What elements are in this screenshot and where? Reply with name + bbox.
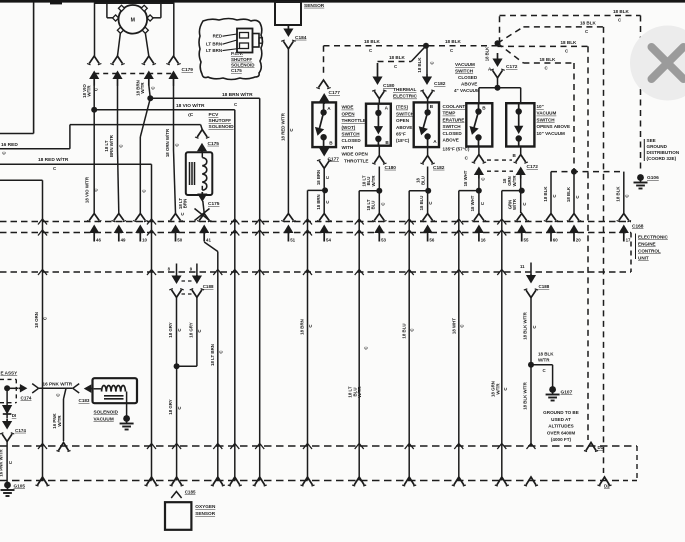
wire 18 GRN W/TR: [520, 179, 522, 214]
svg-text:SOLENOID: SOLENOID: [231, 62, 255, 67]
svg-text:18 BLK: 18 BLK: [364, 39, 381, 44]
close button: [630, 26, 685, 101]
svg-text:USED AT: USED AT: [551, 417, 571, 422]
svg-text:(TES): (TES): [396, 105, 408, 110]
ground G107: [549, 386, 556, 393]
svg-text:18 BLK: 18 BLK: [485, 47, 490, 61]
inset: PCV shutoff solenoid connector detail: [199, 19, 263, 80]
connector C184: [287, 25, 289, 33]
wire 18 BLK dashed tie line: [551, 171, 624, 173]
svg-text:18 BLK W/TR: 18 BLK W/TR: [523, 381, 528, 409]
svg-text:ABOVE: ABOVE: [443, 138, 459, 143]
svg-text:18 BLK: 18 BLK: [613, 9, 630, 14]
wire 18 VIO W/TR drop to bottom: [234, 110, 236, 481]
wire 18 LT BLU W/TR branch to bottom: [359, 190, 379, 192]
svg-text:COOLANT: COOLANT: [443, 104, 466, 109]
svg-text:18 RED W/TR: 18 RED W/TR: [280, 112, 285, 141]
vacuum solenoid box: [93, 378, 138, 403]
wire 16 RED from left edge: [0, 148, 70, 150]
svg-text:C: C: [480, 177, 485, 180]
svg-text:18 BLU: 18 BLU: [419, 196, 424, 211]
svg-text:ELECTRONIC: ELECTRONIC: [638, 235, 669, 240]
svg-text:C: C: [522, 202, 527, 205]
wire 18 RED W/TR from left edge: [0, 163, 152, 165]
connector C168 row: [0, 221, 631, 223]
C168 pin 10: [135, 214, 145, 221]
ground G106: [637, 174, 644, 181]
svg-text:E ASSY: E ASSY: [1, 370, 18, 375]
branch to G107: [531, 364, 553, 366]
svg-text:ALTITUDES: ALTITUDES: [548, 424, 573, 429]
connector C179 (motor disconnect): [89, 56, 99, 64]
svg-text:SWITCH: SWITCH: [443, 124, 462, 129]
svg-text:ENGINE: ENGINE: [638, 242, 656, 247]
text electronic engine control unit: [635, 234, 637, 260]
svg-text:C: C: [56, 393, 61, 396]
wire 18 BLK dashed to TES switch: [378, 61, 412, 63]
svg-text:BLU: BLU: [420, 176, 425, 185]
dashed link D1-D2: [614, 480, 637, 482]
connector C175 lower: [201, 192, 203, 198]
motor M (vacuum motor): [119, 5, 148, 34]
svg-text:C174: C174: [15, 428, 26, 433]
svg-text:16: 16: [481, 238, 486, 243]
svg-text:OVER 6400M: OVER 6400M: [547, 430, 576, 435]
svg-text:SWITCH: SWITCH: [396, 111, 415, 116]
wire 18 VIO W/TR: [93, 85, 95, 213]
svg-text:SWITCH: SWITCH: [455, 69, 474, 74]
svg-text:G106: G106: [647, 175, 659, 181]
svg-text:THERMAL: THERMAL: [393, 87, 417, 93]
splice on BRN wire: [147, 95, 153, 101]
svg-text:10": 10": [537, 104, 544, 109]
svg-text:W/TR: W/TR: [140, 82, 145, 94]
svg-text:18 BLK: 18 BLK: [566, 186, 571, 202]
junction 18 BLK fan: [495, 40, 501, 46]
svg-text:18 GRY: 18 GRY: [188, 322, 193, 338]
svg-text:DI: DI: [12, 413, 16, 418]
svg-text:RED: RED: [213, 34, 223, 39]
svg-text:SWITCH: SWITCH: [537, 117, 556, 122]
svg-text:VACUUM: VACUUM: [94, 417, 114, 422]
svg-text:C188: C188: [539, 284, 550, 289]
svg-text:DISTRIBUTION: DISTRIBUTION: [647, 150, 680, 155]
diode D1: [6, 388, 8, 405]
svg-text:C177: C177: [329, 90, 341, 96]
svg-text:60: 60: [553, 238, 558, 243]
wire 18 BLK to pin 20: [573, 172, 575, 213]
svg-text:C182: C182: [433, 165, 445, 171]
svg-text:18 BRN: 18 BRN: [300, 319, 305, 335]
D1 termination: [586, 443, 596, 451]
wire 18 BLU branch to bottom: [409, 190, 428, 192]
wire 16 PNK W/TR to ground: [6, 442, 8, 484]
svg-text:WIDE: WIDE: [342, 105, 354, 110]
svg-text:CLOSED: CLOSED: [342, 138, 362, 143]
svg-text:C: C: [8, 461, 13, 464]
svg-text:LT BRN: LT BRN: [206, 48, 222, 53]
wire 18 ORN W/TR: [173, 85, 175, 150]
svg-text:C: C: [480, 202, 485, 205]
wire 18 RED W/TR drop to bottom: [151, 164, 153, 480]
svg-text:C182: C182: [434, 81, 446, 87]
svg-text:OXYGEN: OXYGEN: [195, 504, 216, 509]
svg-text:C180: C180: [385, 165, 397, 171]
svg-text:C172: C172: [506, 64, 518, 70]
C188 sockets: [172, 290, 182, 298]
row2 terminations: [38, 477, 48, 485]
svg-text:CLOSED: CLOSED: [458, 75, 478, 80]
svg-text:GROUND TO BE: GROUND TO BE: [543, 410, 579, 415]
motor lead wires: [94, 3, 96, 56]
svg-text:C188: C188: [203, 284, 214, 289]
switch WOT (wide open throttle): [312, 102, 336, 147]
svg-text:SENSOR: SENSOR: [195, 511, 215, 516]
svg-text:(18°C): (18°C): [396, 138, 410, 143]
wire 18 ORN from left edge: [0, 179, 43, 181]
connector C174 (horizontal): [7, 387, 18, 389]
connector C172 top (4in vacuum switch feed): [497, 53, 499, 63]
svg-text:18 WHT: 18 WHT: [470, 195, 475, 211]
svg-text:P.C.V.: P.C.V.: [231, 51, 243, 56]
connector C182 upper (coolant switch feed): [426, 74, 428, 81]
connector C174 lower: [6, 419, 8, 426]
junction in engine assy: [4, 385, 10, 391]
wire 18 LT BRN jog below pin 41: [204, 242, 218, 252]
svg-text:VACUUM: VACUUM: [455, 62, 475, 67]
svg-text:C172: C172: [527, 164, 539, 170]
C168 pin 46: [89, 214, 99, 221]
connector C183 pair: [73, 384, 79, 393]
svg-text:55: 55: [524, 238, 529, 243]
svg-text:CLOSED: CLOSED: [443, 131, 463, 136]
C168 pin 49: [114, 214, 124, 221]
wire 18 BLK dashed branch B (to D2): [498, 27, 524, 43]
svg-text:ABOVE: ABOVE: [396, 125, 412, 130]
svg-text:C183: C183: [79, 398, 90, 403]
svg-text:18 RED W/TR: 18 RED W/TR: [38, 157, 69, 163]
wire 18 BRN W/TR drop to bottom: [259, 98, 261, 480]
svg-text:49: 49: [121, 238, 126, 243]
svg-text:SOLENOID: SOLENOID: [209, 124, 235, 130]
svg-text:11: 11: [520, 264, 525, 269]
svg-text:18 BLK: 18 BLK: [417, 57, 422, 73]
svg-text:B: B: [482, 106, 486, 111]
wire 18 LT BLU W/TR: [378, 147, 380, 156]
C168 pin 54: [319, 214, 329, 221]
svg-text:LT BRN: LT BRN: [206, 42, 222, 47]
svg-text:18 BRN: 18 BRN: [316, 194, 321, 209]
svg-text:18 BRN W/TR: 18 BRN W/TR: [222, 92, 253, 98]
svg-text:C: C: [430, 61, 435, 64]
svg-text:18 WHT: 18 WHT: [452, 318, 457, 334]
svg-text:18 BLK: 18 BLK: [580, 20, 597, 25]
wire 18 GRN W/TR branch to bottom: [502, 190, 522, 192]
switch 10in vacuum: [506, 103, 534, 146]
svg-text:WIDE OPEN: WIDE OPEN: [342, 152, 369, 157]
connector C177 upper (from 18 BLK): [319, 80, 329, 88]
svg-text:4" VACUUM: 4" VACUUM: [454, 88, 480, 93]
sensor box: [275, 2, 301, 25]
wire 18 BLU: [427, 147, 429, 156]
wire 18 GRY right: [196, 297, 198, 366]
connector C180 lower: [374, 156, 384, 164]
svg-text:SHUTOFF: SHUTOFF: [231, 57, 252, 62]
svg-text:18 VIO W/TR: 18 VIO W/TR: [85, 176, 90, 203]
svg-text:18 BLK: 18 BLK: [543, 186, 548, 202]
connector C182 lower: [423, 156, 433, 164]
C168 pin 51: [283, 214, 293, 221]
svg-text:C185: C185: [185, 489, 196, 494]
svg-text:OPENS ABOVE: OPENS ABOVE: [537, 124, 571, 129]
svg-text:ERATURE: ERATURE: [443, 117, 465, 122]
svg-text:18 ORN: 18 ORN: [34, 312, 39, 328]
svg-text:W/TR: W/TR: [357, 386, 362, 398]
wire 18 BRN W/TR horizontal run: [150, 97, 259, 99]
svg-text:BLU: BLU: [371, 201, 376, 210]
svg-text:C179: C179: [182, 67, 194, 73]
splice on tie line: [571, 169, 577, 175]
svg-text:CONTROL: CONTROL: [638, 249, 661, 254]
svg-text:SOLENOID: SOLENOID: [94, 410, 119, 415]
oxygen sensor box: [165, 502, 191, 530]
svg-text:SWITCH: SWITCH: [342, 132, 361, 137]
svg-text:OPEN: OPEN: [342, 111, 356, 116]
connector C172 lower pair: [478, 147, 480, 155]
svg-text:53: 53: [381, 238, 386, 243]
engine assembly dashed outline: [0, 378, 16, 380]
wire 18 LT BRN to pin 41: [203, 201, 204, 213]
wire 18 RED W/TR from sensor: [287, 49, 289, 213]
svg-text:W/TR: W/TR: [57, 415, 62, 427]
svg-text:(COORD 32E): (COORD 32E): [647, 156, 677, 161]
C168 pin 53: [374, 214, 384, 221]
svg-text:18 BLK W/TR: 18 BLK W/TR: [523, 311, 528, 339]
splice on VIO wire: [91, 107, 97, 113]
svg-text:18 VIO W/TR: 18 VIO W/TR: [176, 103, 205, 109]
svg-text:18 BLK: 18 BLK: [389, 55, 406, 60]
svg-text:BRN W/TR: BRN W/TR: [109, 134, 114, 157]
row1 crossing ticks: [38, 443, 47, 449]
connector C175 upper: [201, 125, 203, 130]
svg-text:THROTTLE: THROTTLE: [342, 118, 367, 123]
svg-text:20: 20: [576, 238, 581, 243]
svg-text:W/TR: W/TR: [538, 358, 550, 363]
connector C180 upper (TES feed): [377, 63, 379, 81]
wire 18 GRY to oxygen sensor: [176, 366, 178, 480]
wire 18 BLK to pin 17: [623, 172, 625, 213]
svg-text:UNIT: UNIT: [638, 256, 649, 261]
svg-text:18 BLK: 18 BLK: [540, 57, 557, 62]
svg-text:10: 10: [142, 238, 147, 243]
wire 18 BLK dashed branch C (to D1): [498, 45, 589, 47]
svg-text:18 BLK: 18 BLK: [538, 352, 554, 357]
svg-text:ABOVE: ABOVE: [461, 82, 477, 87]
svg-text:C: C: [325, 200, 330, 203]
wire 18 VIO W/TR horizontal run: [94, 109, 235, 111]
connector C177 lower: [323, 147, 325, 153]
svg-text:18 GRY: 18 GRY: [168, 399, 173, 415]
C168 pin 16: [474, 214, 484, 221]
svg-text:W/TR: W/TR: [512, 198, 517, 210]
wire 18 BRN: [323, 168, 325, 213]
wire to solenoid ground: [126, 392, 128, 418]
wire 16 PNK W/TR horizontal: [39, 387, 73, 389]
wire from top edge down left side: [33, 2, 35, 134]
splice on BLK W/TR: [528, 362, 534, 368]
solenoid coil: [102, 386, 126, 392]
svg-text:18 GRY: 18 GRY: [168, 322, 173, 338]
svg-text:OPEN: OPEN: [396, 118, 410, 123]
svg-text:(WOT): (WOT): [342, 125, 356, 130]
C168 pin 20: [569, 214, 579, 221]
splice X on LT BRN wire: [195, 209, 210, 221]
wire 18 LT BRN W/TR: [117, 85, 119, 150]
svg-text:18 BLU: 18 BLU: [401, 323, 406, 338]
svg-text:(4000 FT): (4000 FT): [551, 437, 572, 442]
bottom connector row 1: [0, 445, 637, 447]
svg-text:C: C: [325, 176, 330, 179]
svg-text:16 PNK W/TR: 16 PNK W/TR: [43, 381, 73, 386]
svg-text:18 BLK: 18 BLK: [615, 186, 620, 202]
svg-text:SEE: SEE: [647, 138, 656, 143]
C168 pin 55: [517, 214, 527, 221]
wire to pin 10: [140, 98, 150, 137]
wire 18 BRN branch to bottom: [308, 189, 326, 191]
wire 16 PNK W/TR drop: [64, 388, 67, 399]
svg-text:10" VACUUM: 10" VACUUM: [537, 131, 566, 136]
GRY wires join: [177, 365, 197, 367]
svg-text:18 BLK: 18 BLK: [561, 40, 578, 45]
wire 18 BLK W/TR: [530, 298, 532, 446]
svg-text:51: 51: [290, 238, 295, 243]
svg-text:18 LT BRN: 18 LT BRN: [210, 344, 215, 366]
svg-text:ELECTRIC: ELECTRIC: [393, 94, 418, 100]
svg-text:65°F: 65°F: [396, 132, 406, 137]
svg-text:G105: G105: [14, 484, 26, 489]
svg-text:50: 50: [177, 238, 182, 243]
switch 4in vacuum: [466, 103, 492, 146]
wire to vacuum switches: [497, 78, 499, 88]
row2 crossing ticks: [38, 269, 47, 275]
wire 18 BRN W/TR: [149, 85, 151, 98]
text see ground distribution: [643, 139, 645, 161]
wire 18 GRY left: [176, 297, 178, 366]
svg-text:W/TR: W/TR: [371, 175, 376, 187]
wire 18 ORN drop to bottom: [42, 180, 44, 480]
svg-text:WITH: WITH: [342, 145, 354, 150]
svg-text:18 BLK: 18 BLK: [445, 39, 462, 44]
switch TES (thermal electric): [366, 104, 391, 146]
wire 18 BLK dashed branch D (to EECU grounds): [498, 43, 524, 63]
svg-text:PCV: PCV: [209, 112, 220, 118]
svg-text:SENSOR: SENSOR: [304, 3, 325, 9]
bottom connector row 2: [0, 480, 614, 482]
svg-text:C175: C175: [208, 201, 220, 207]
svg-text:D2: D2: [604, 484, 610, 489]
svg-text:GROUND: GROUND: [647, 144, 668, 149]
D2 termination: [600, 477, 610, 485]
svg-text:56: 56: [429, 238, 434, 243]
svg-text:C175: C175: [231, 68, 242, 73]
svg-text:18 BRN: 18 BRN: [316, 170, 321, 185]
C168 pin 60: [546, 214, 556, 221]
wire 18 BLK to pin 60: [550, 172, 552, 213]
svg-text:46: 46: [96, 238, 101, 243]
svg-text:C: C: [428, 201, 433, 204]
wire 18 BLK dashed branch A (to G106): [499, 16, 501, 44]
svg-text:C168: C168: [632, 224, 644, 230]
C168 pin 17: [619, 214, 629, 221]
top scan-cut black bar: [0, 0, 685, 3]
svg-text:C174: C174: [21, 395, 32, 400]
svg-text:54: 54: [326, 238, 331, 243]
svg-text:VACUUM: VACUUM: [537, 111, 557, 116]
svg-text:B: B: [430, 104, 434, 109]
svg-text:16 PNK W/TR: 16 PNK W/TR: [0, 448, 4, 476]
svg-text:C184: C184: [295, 35, 307, 41]
junction on 18 BLK: [423, 43, 429, 49]
C168 pin 41: [199, 214, 209, 221]
wire 18 WHT: [478, 179, 480, 214]
solenoid coil (PCV shutoff): [186, 152, 213, 195]
svg-text:W/TR: W/TR: [87, 85, 92, 97]
svg-text:18 WHT: 18 WHT: [463, 170, 468, 186]
svg-text:BRN: BRN: [183, 199, 188, 209]
svg-text:41: 41: [206, 238, 211, 243]
svg-text:THROTTLE: THROTTLE: [344, 158, 369, 163]
C168 pin 50: [171, 214, 181, 221]
svg-text:18 ORN W/TR: 18 ORN W/TR: [165, 128, 170, 157]
wire 18 WHT branch to bottom: [459, 190, 479, 192]
svg-text:M: M: [131, 18, 135, 24]
svg-text:17: 17: [626, 238, 631, 243]
wire 18 BLK to coolant switch: [426, 46, 428, 74]
svg-text:G107: G107: [561, 390, 573, 396]
svg-text:D1: D1: [598, 445, 604, 450]
ground for vacuum solenoid: [123, 415, 130, 422]
wire 18 BLK dashed feed to WOT switch: [324, 45, 498, 47]
svg-text:W/TR: W/TR: [495, 383, 500, 395]
svg-text:TEMP: TEMP: [443, 111, 456, 116]
ground G105: [4, 482, 11, 489]
svg-text:16 RED: 16 RED: [1, 142, 18, 148]
svg-text:W/TR: W/TR: [512, 175, 517, 187]
svg-text:C: C: [381, 202, 386, 205]
svg-text:C175: C175: [208, 141, 220, 147]
switch coolant temperature: [414, 102, 439, 147]
C168 pin 56: [423, 214, 433, 221]
svg-text:SHUTOFF: SHUTOFF: [209, 118, 232, 124]
row crossing ticks C168: [38, 219, 47, 225]
